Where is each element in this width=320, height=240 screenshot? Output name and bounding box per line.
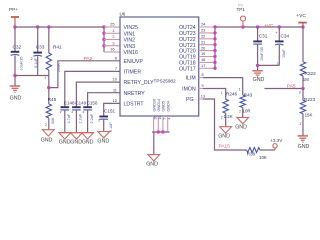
resistor R41: [44, 27, 62, 88]
power symbol +VC: [296, 13, 306, 27]
svg-text:TP1: TP1: [237, 7, 246, 12]
svg-text:10R: 10R: [243, 109, 251, 114]
junction TP1 tap: [241, 25, 244, 28]
svg-text:VIN1: VIN1: [124, 31, 136, 37]
svg-text:GND: GND: [253, 77, 265, 83]
pin stub GND pin 5: [162, 116, 164, 132]
wire C34 bottom to C31: [258, 64, 280, 66]
ground triangle C149: [71, 133, 83, 139]
svg-text:C31: C31: [259, 34, 268, 39]
svg-text:17: 17: [201, 63, 205, 68]
pin stub VIN pin 1: [104, 32, 120, 34]
ground bar capacitors: [59, 132, 94, 134]
resistor R222: [300, 27, 316, 89]
wire VIN bus vertical: [103, 27, 105, 52]
pin stub VIN pin 3: [104, 45, 120, 47]
junction OUT bus: [213, 31, 216, 34]
svg-text:2: 2: [31, 57, 33, 61]
power terminal +3.3V: [270, 138, 283, 150]
svg-text:21: 21: [201, 39, 205, 44]
wire PA5: [265, 88, 304, 90]
svg-text:R43: R43: [244, 92, 253, 97]
svg-text:23: 23: [201, 28, 205, 33]
pin stub GND pin 14: [157, 116, 159, 132]
capacitor C150: [83, 101, 98, 133]
svg-text:C148: C148: [64, 101, 75, 106]
svg-text:NRETRY: NRETRY: [124, 91, 146, 97]
pin stub GND pin 4: [167, 116, 169, 132]
svg-text:GND14: GND14: [157, 99, 161, 112]
capacitor C149: [72, 101, 87, 133]
svg-text:VIN25: VIN25: [124, 25, 139, 31]
capacitor C31: [253, 27, 267, 65]
svg-text:RETRY_DLY: RETRY_DLY: [124, 80, 155, 86]
svg-text:4: 4: [168, 118, 172, 120]
junction EN divider: [47, 86, 50, 89]
svg-text:R222: R222: [305, 71, 317, 76]
svg-text:R45: R45: [48, 97, 57, 102]
svg-text:18: 18: [201, 57, 205, 62]
ground earth C31 C34: [252, 70, 262, 72]
ground triangle C148: [59, 133, 71, 139]
svg-text:4.7uF: 4.7uF: [67, 113, 71, 123]
svg-text:1: 1: [239, 88, 241, 92]
svg-text:19: 19: [201, 51, 205, 56]
wire NRETRY to C150: [88, 93, 120, 108]
junction C33 tap: [36, 25, 39, 28]
wire GND pins bar: [152, 131, 170, 133]
ground earth C32: [10, 85, 20, 87]
svg-text:TPS25982: TPS25982: [154, 78, 177, 83]
svg-text:2: 2: [299, 91, 301, 95]
resistor R38: [247, 148, 267, 160]
svg-text:25: 25: [110, 22, 114, 27]
pin stub OUT pin 23: [199, 32, 215, 34]
pin stub ILIM pin 8: [199, 77, 203, 79]
wire C31 gnd drop: [257, 65, 259, 70]
wire PG to PA15 R38: [203, 99, 247, 150]
capacitor C34: [275, 27, 289, 66]
svg-text:0.1uF: 0.1uF: [109, 122, 113, 132]
IC U6 TPS25982 body: [120, 17, 199, 116]
junction GND bar a: [157, 130, 160, 133]
svg-text:C34: C34: [281, 34, 290, 39]
pin stub OUT pin 19: [199, 56, 215, 58]
svg-text:GND26: GND26: [152, 99, 156, 112]
capacitor C33: [31, 27, 45, 76]
junction VC end: [301, 25, 304, 28]
svg-text:GND: GND: [146, 162, 158, 168]
junction VIN2: [102, 38, 105, 41]
svg-text:C150: C150: [87, 101, 98, 106]
junction OUT bus: [213, 61, 216, 64]
svg-text:PA15: PA15: [219, 144, 231, 150]
wire GND bar drop: [153, 132, 155, 155]
ground triangle R246: [220, 127, 232, 133]
svg-text:5: 5: [163, 118, 167, 120]
svg-text:10uF: 10uF: [282, 49, 286, 58]
svg-text:2: 2: [98, 119, 100, 123]
wire OUT bus vertical: [214, 27, 216, 68]
svg-text:GND4: GND4: [166, 101, 170, 112]
svg-text:R246: R246: [226, 91, 238, 96]
pin stub OUT pin 22: [199, 38, 215, 40]
svg-text:C149: C149: [75, 101, 86, 106]
svg-text:1.2K: 1.2K: [224, 114, 233, 119]
svg-text:GND5: GND5: [162, 101, 166, 112]
pin stub OUT pin 20: [199, 50, 215, 52]
svg-text:16: 16: [110, 47, 114, 52]
wire IMON to R246: [203, 89, 226, 100]
svg-text:R41: R41: [53, 44, 62, 49]
svg-text:8: 8: [202, 72, 204, 77]
junction C32 tap: [13, 25, 16, 28]
svg-text:10K: 10K: [259, 155, 267, 160]
svg-text:LDSTRT: LDSTRT: [124, 102, 145, 108]
pin stub PG pin 13: [199, 98, 203, 100]
wire EN/UVP to divider: [49, 61, 120, 88]
junction C34 tap: [278, 25, 281, 28]
junction OUT bus: [213, 55, 216, 58]
svg-text:2: 2: [221, 115, 223, 119]
svg-text:VIN2: VIN2: [124, 38, 136, 44]
svg-text:26: 26: [153, 116, 157, 120]
svg-text:+VC: +VC: [264, 23, 274, 29]
svg-text:R223: R223: [304, 97, 316, 102]
svg-text:2: 2: [239, 109, 241, 113]
junction C31 gnd: [256, 64, 259, 67]
svg-text:10uF/35: 10uF/35: [260, 47, 264, 61]
svg-text:IMON: IMON: [182, 87, 196, 93]
capacitor C148: [61, 101, 76, 133]
ground triangle C150: [82, 133, 94, 139]
svg-text:12: 12: [113, 98, 118, 103]
svg-text:GND: GND: [10, 96, 22, 102]
svg-text:C33: C33: [36, 45, 45, 50]
pin stub OUT pin 24: [199, 26, 215, 28]
junction GND bar b: [161, 130, 164, 133]
svg-text:1: 1: [112, 28, 114, 33]
svg-text:2: 2: [45, 123, 47, 127]
resistor R45: [45, 88, 57, 130]
wire OUT rail to +VC: [215, 26, 303, 28]
svg-text:2.2uF: 2.2uF: [79, 113, 83, 123]
junction C31 tap: [256, 25, 259, 28]
svg-text:OUT17: OUT17: [179, 66, 196, 72]
pin stub OUT pin 17: [199, 67, 215, 69]
wire ITIMER to C148: [65, 71, 120, 107]
wire R38 to +3.3V: [260, 149, 275, 151]
svg-text:GND: GND: [82, 140, 94, 146]
svg-text:PP+: PP+: [9, 7, 18, 12]
svg-text:22: 22: [201, 34, 205, 39]
power flag PP+: [9, 7, 19, 27]
junction OUT bus: [213, 67, 216, 70]
svg-text:GND: GND: [235, 125, 247, 131]
ground triangle R43: [237, 117, 249, 123]
pin stub OUT pin 21: [199, 44, 215, 46]
svg-text:10uF/35: 10uF/35: [20, 57, 24, 71]
pin stub VIN pin 2: [104, 39, 120, 41]
ground triangle U6: [148, 155, 160, 161]
pin stub VIN pin 16: [104, 51, 120, 53]
pin stub GND pin 26: [153, 116, 155, 132]
svg-text:13: 13: [201, 94, 205, 99]
wire ILIM to R43: [203, 78, 243, 95]
svg-text:+3.3V: +3.3V: [270, 138, 283, 143]
svg-text:1: 1: [299, 122, 301, 126]
svg-text:VIN16: VIN16: [124, 50, 139, 56]
svg-text:30K: 30K: [51, 117, 55, 124]
svg-text:1: 1: [44, 76, 46, 80]
wire VIN top rail: [15, 26, 104, 28]
svg-text:C32: C32: [13, 45, 22, 50]
pin stub OUT pin 18: [199, 61, 215, 63]
capacitor C151: [98, 109, 115, 133]
pin stub VIN pin 25: [104, 26, 120, 28]
ground earth R223: [298, 135, 308, 137]
svg-text:GND: GND: [70, 140, 82, 146]
svg-text:9: 9: [202, 83, 204, 88]
junction VIN bus top: [102, 25, 105, 28]
junction gnd bus: [13, 74, 16, 77]
svg-text:1: 1: [221, 91, 223, 95]
svg-text:U6: U6: [120, 12, 126, 17]
ground triangle R45: [42, 130, 54, 136]
ground triangle C151: [98, 132, 110, 138]
svg-text:GND: GND: [298, 144, 310, 150]
test point TP1: [237, 4, 246, 27]
wire LDSTRT to C151: [104, 103, 120, 116]
svg-text:GND: GND: [59, 140, 71, 146]
junction VIN1: [102, 32, 105, 35]
junction OUT bus: [213, 49, 216, 52]
svg-text:15K: 15K: [305, 112, 313, 117]
junction OUT bus: [213, 37, 216, 40]
svg-text:C151: C151: [104, 109, 115, 114]
svg-text:VIN3: VIN3: [124, 44, 136, 50]
junction R41 tap: [47, 25, 50, 28]
svg-text:+VC: +VC: [296, 13, 306, 19]
wire gnd bus C32 C33: [15, 75, 49, 77]
wire RETRY_DLY to C149: [76, 82, 120, 107]
svg-text:EN/UVP: EN/UVP: [124, 59, 144, 65]
resistor R246: [221, 91, 238, 126]
svg-text:R38: R38: [247, 151, 256, 156]
junction OUT bus: [213, 25, 216, 28]
svg-text:ILIM: ILIM: [186, 76, 196, 82]
svg-text:1M: 1M: [303, 77, 309, 82]
resistor R223: [299, 89, 316, 136]
wire C32 gnd drop: [14, 76, 16, 86]
resistor R43: [239, 92, 253, 117]
junction VIN3: [102, 44, 105, 47]
svg-text:GND: GND: [97, 138, 109, 144]
capacitor C32: [11, 27, 24, 76]
pin stub IMON pin 9: [199, 88, 203, 90]
svg-text:0.1uF: 0.1uF: [34, 57, 38, 67]
svg-text:2.2uF: 2.2uF: [90, 113, 94, 123]
svg-text:ITIMER: ITIMER: [124, 70, 142, 76]
junction PA5 divider: [301, 87, 304, 90]
svg-text:PG: PG: [186, 97, 194, 103]
svg-text:GND: GND: [218, 134, 230, 140]
junction OUT bus: [213, 43, 216, 46]
svg-text:GND: GND: [41, 137, 53, 143]
svg-text:10: 10: [113, 77, 118, 82]
svg-text:14: 14: [158, 116, 162, 120]
svg-text:2: 2: [112, 34, 114, 39]
svg-text:3: 3: [112, 40, 114, 45]
